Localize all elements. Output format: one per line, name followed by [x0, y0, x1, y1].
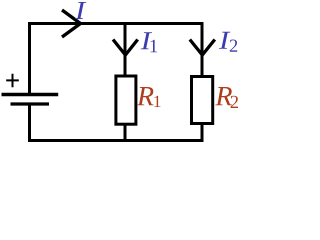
battery plus sign: [6, 74, 19, 88]
current arrow I (rightward on top rail): [62, 10, 81, 37]
resistor R2 box: [192, 77, 213, 124]
label I1: [141, 32, 152, 49]
resistor R1 box: [116, 76, 136, 124]
current arrow I2 (downward on R2 branch): [190, 40, 215, 56]
wire: R1 branch top (node at top rail): [124, 22, 127, 76]
battery V1: long positive plate: [2, 93, 59, 97]
wire: R1 branch bottom (node at bottom rail): [124, 123, 127, 142]
label I: [75, 2, 86, 19]
wire: left rail below battery, bottom rail, rise to R2 bottom: [30, 106, 203, 141]
label R1: [137, 87, 154, 105]
label R2: [215, 87, 232, 105]
label I2: [219, 32, 230, 49]
battery V1: short negative plate: [11, 102, 50, 105]
wire: top rail, left rail above battery, right drop to R2: [30, 24, 203, 94]
current arrow I1 (downward on R1 branch): [113, 40, 138, 56]
